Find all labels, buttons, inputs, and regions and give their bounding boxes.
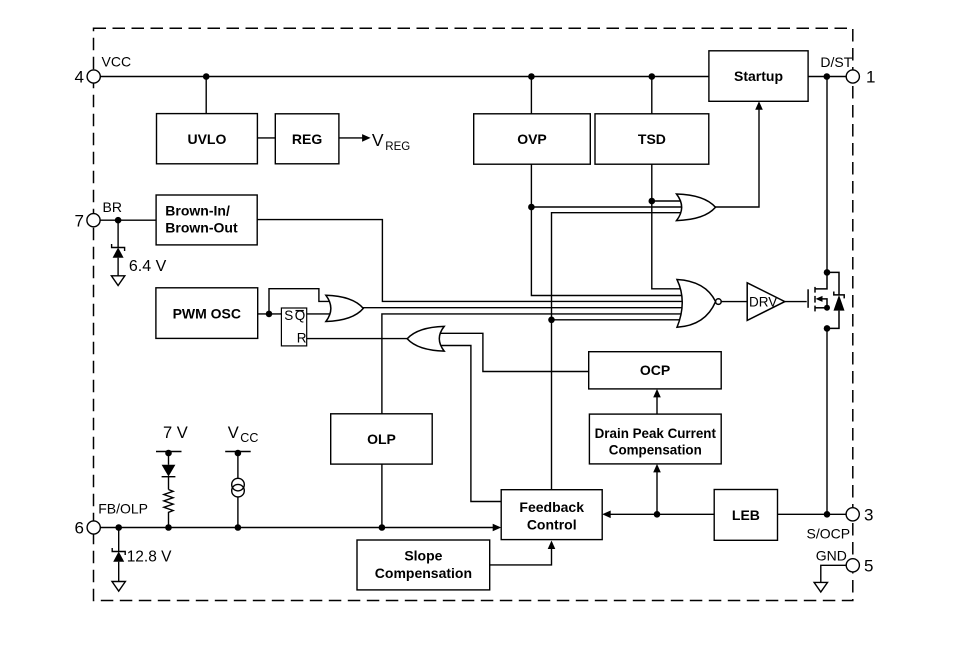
source stub (815, 307, 827, 309)
svg-text:FB/OLP: FB/OLP (98, 500, 148, 516)
wire OR2 output to main gate input 3 (360, 307, 700, 309)
arrow Slope Compensation to Feedback Control (548, 541, 556, 550)
svg-text:UVLO: UVLO (187, 131, 226, 147)
pin 4 VCC (87, 70, 100, 83)
MOSFET (power switch) (808, 272, 827, 311)
svg-text:4: 4 (75, 68, 84, 87)
node FB/OLP-current source (235, 524, 242, 531)
svg-text:Brown-Out: Brown-Out (165, 220, 238, 236)
svg-text:7 V: 7 V (163, 424, 188, 442)
pin circles (87, 70, 860, 572)
block OVP (474, 114, 591, 164)
block PWM OSC (156, 288, 258, 339)
node VCC-OVP (528, 73, 535, 80)
block Brown-In/Brown-Out (156, 195, 257, 245)
gate bar (807, 289, 809, 308)
current source from VCC (225, 452, 251, 528)
wire VCC rail from pin 4 to Startup (100, 76, 709, 78)
node FB/OLP-OLP (379, 524, 386, 531)
block Startup (709, 51, 808, 102)
arrow into Feedback Control left (493, 524, 502, 532)
wire node up to Drain Peak Current Compensation (arrow) (656, 470, 658, 515)
pin 7 BR (87, 214, 100, 227)
svg-text:OVP: OVP (517, 131, 547, 147)
wire GND pin to ground symbol (821, 565, 846, 582)
wire pin 6 to Feedback Control (arrow) (100, 527, 495, 529)
wire Drain Peak Current Compensation to OCP (arrow) (656, 395, 658, 415)
svg-text:Compensation: Compensation (609, 443, 702, 458)
gate OR1 (OVP/TSD/FB or) (677, 194, 716, 221)
svg-text:LEB: LEB (732, 507, 760, 523)
svg-text:S/OCP: S/OCP (807, 526, 851, 542)
svg-text:D/ST: D/ST (820, 54, 852, 70)
pin 5 GND (846, 559, 859, 572)
svg-text:6: 6 (75, 519, 84, 538)
node 7V terminal (165, 450, 172, 457)
svg-text:CC: CC (240, 431, 258, 445)
arrow DPCC to OCP (653, 389, 661, 398)
svg-text:Compensation: Compensation (375, 565, 472, 581)
wire VCC drop to TSD (651, 77, 653, 114)
body tap (820, 299, 827, 308)
resistor (7V branch) (164, 490, 173, 528)
svg-text:V: V (228, 424, 239, 442)
svg-text:R: R (297, 331, 307, 346)
IC boundary dashed border (94, 28, 853, 600)
wire TSD tap to OR1 input 1 (652, 200, 685, 202)
wire Feedback Control output to OR3 bottom input (440, 346, 501, 502)
wire Startup to pin 1 (808, 76, 846, 78)
svg-text:1: 1 (866, 68, 875, 87)
arrow into DPCC bottom (653, 464, 661, 473)
zener diode 12.8V at FB/OLP pin (112, 528, 125, 582)
node FB/OLP-7V branch (165, 524, 172, 531)
block OLP (331, 414, 433, 464)
svg-text:Brown-In/: Brown-In/ (165, 202, 230, 218)
pin 6 FB/OLP (87, 521, 100, 534)
pin 3 S/OCP (846, 508, 859, 521)
svg-text:V: V (372, 130, 384, 150)
body arrow of MOSFET (816, 296, 823, 302)
wire OVP tap to OR1 input 2 (531, 206, 685, 208)
open arrow to ground (BR zener) (111, 276, 124, 286)
wire OR3 output to latch R input (307, 338, 409, 340)
svg-text:Control: Control (527, 517, 577, 533)
node TSD-OR1 (649, 198, 656, 205)
channel segments (814, 287, 816, 293)
diode (7V branch) (162, 465, 176, 477)
node OVP-OR1 (528, 204, 535, 211)
latch output overbar (Q bar) (296, 310, 304, 312)
node VCC-TSD (649, 73, 656, 80)
node S/OCP (824, 511, 831, 518)
wire PWM OSC to latch S input (258, 313, 282, 315)
node VCC-UVLO (203, 73, 210, 80)
wire latch Q to OR2 input 2 (307, 313, 332, 315)
wire OCP output to OR3 top input (440, 333, 589, 371)
svg-text:OCP: OCP (640, 362, 670, 378)
svg-text:3: 3 (864, 506, 873, 525)
ground symbol at GND pin (814, 582, 827, 592)
wire OVP down to main gate input 1 (531, 164, 700, 295)
svg-text:VCC: VCC (102, 54, 132, 70)
node FB riser-input5 (548, 317, 555, 324)
node MOSFET body-source (824, 305, 830, 311)
arrow OR1 to Startup (755, 101, 763, 110)
wire pin 7 to Brown-In block (100, 219, 156, 221)
arrow VREG (362, 134, 371, 142)
wire LEB to Feedback Control (arrow) (608, 513, 714, 515)
node MOSFET source-diode (824, 325, 831, 332)
wire OLP riser to main gate input 4 (382, 314, 700, 414)
block TSD (595, 114, 709, 164)
svg-text:12.8 V: 12.8 V (127, 548, 172, 565)
wire TSD down to main gate top input (652, 164, 700, 289)
svg-text:S: S (284, 308, 293, 323)
arrow LEB to Feedback Control (602, 511, 611, 519)
wire VCC drop to UVLO (205, 77, 207, 114)
wire VCC drop to OVP (530, 77, 532, 114)
7V clamp branch: terminal bar, diode, resistor (156, 452, 182, 528)
wire MOSFET source down to S/OCP node (826, 328, 828, 514)
gate main NOR (6-input) (677, 280, 716, 328)
bubble of main NOR (716, 299, 722, 305)
drain stub (815, 272, 827, 289)
svg-text:REG: REG (385, 141, 410, 153)
wire DRV to MOSFET gate (785, 301, 807, 303)
block Feedback Control (501, 490, 602, 540)
wire UVLO to REG (257, 137, 275, 139)
svg-text:7: 7 (75, 211, 84, 230)
wire D/ST branch down to MOSFET drain (826, 77, 828, 273)
wire feedback tap to main gate input 5 (552, 319, 701, 321)
node BR zener (115, 217, 122, 224)
block LEB (714, 490, 777, 541)
wire REG output to VREG arrow (339, 137, 365, 139)
wire Slope Compensation output to Feedback Control bottom (arrow) (490, 546, 552, 565)
latch S/R (281, 308, 306, 346)
wire PWM OSC tap step to OR2 input 1 (269, 289, 332, 314)
svg-text:Startup: Startup (734, 68, 783, 84)
block UVLO (157, 114, 258, 164)
svg-text:5: 5 (864, 557, 873, 576)
arrowheads (362, 101, 763, 549)
wire Brown-In/Brown-Out output to main gate input 2 (257, 220, 700, 302)
svg-text:6.4 V: 6.4 V (129, 258, 167, 275)
open arrow to ground (FB/OLP zener) (112, 582, 125, 592)
svg-text:OLP: OLP (367, 431, 396, 447)
svg-text:REG: REG (292, 131, 322, 147)
node MOSFET drain (824, 269, 831, 276)
svg-text:PWM OSC: PWM OSC (173, 306, 241, 322)
wire main gate bubble to DRV (721, 301, 747, 303)
block Drain Peak Current Compensation (589, 414, 721, 464)
gate OR2 (PWM osc / latch) (326, 295, 363, 321)
node VCC terminal (235, 450, 242, 457)
svg-text:DRV: DRV (749, 294, 777, 309)
wire OLP down to FB/OLP rail (381, 464, 383, 527)
wire feedback riser to OR1 input 3 (552, 213, 686, 490)
svg-text:TSD: TSD (638, 131, 666, 147)
block REG (275, 114, 339, 164)
block OCP (589, 352, 722, 389)
svg-text:Drain Peak Current: Drain Peak Current (595, 426, 717, 441)
node LEB-DPCC (654, 511, 661, 518)
body zener diode of MOSFET (827, 272, 844, 328)
wire S/OCP node to pin 3 (778, 513, 847, 515)
svg-text:GND: GND (816, 547, 847, 563)
block Slope Compensation (357, 540, 490, 590)
svg-text:BR: BR (103, 199, 122, 215)
pin 1 D/ST (846, 70, 859, 83)
svg-text:Q: Q (295, 308, 306, 323)
node D/ST (824, 73, 831, 80)
node FB/OLP-zener (115, 524, 122, 531)
buffer DRV (747, 283, 785, 321)
wire OR1 output to Startup (up) (712, 107, 759, 208)
svg-text:Slope: Slope (404, 547, 442, 563)
gate OR3 (mirrored, OCP/FB to latch R) (407, 326, 444, 351)
zener diode 6.4V at BR pin (112, 220, 125, 276)
node PWM-step (266, 311, 273, 318)
svg-text:Feedback: Feedback (519, 499, 584, 515)
